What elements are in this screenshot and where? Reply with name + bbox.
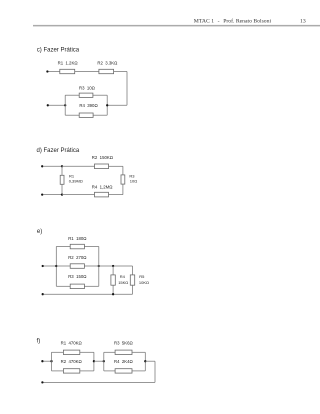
node A junction dot (section c) — [64, 104, 66, 106]
terminal node (section c, top input) — [46, 70, 48, 72]
node junction dot (section d, top of R1) — [61, 165, 63, 167]
svg-text:R2 470KΩ: R2 470KΩ — [61, 359, 83, 364]
resistor R2 (section e) — [70, 264, 84, 269]
wire (section e, R4 upper lead) — [112, 266, 114, 275]
resistor R4 (section c) — [79, 113, 93, 117]
wire (section f, R2 branch left) — [52, 370, 64, 372]
resistor R5 vertical (section e) — [130, 275, 134, 285]
resistor R1 vertical (section d) — [60, 175, 64, 184]
node junction dot (section f, pair2 left) — [103, 360, 105, 362]
svg-text:R4 2K4Ω: R4 2K4Ω — [114, 359, 134, 364]
svg-text:R1 180Ω: R1 180Ω — [68, 236, 87, 241]
svg-text:R2 3.3KΩ: R2 3.3KΩ — [97, 61, 118, 66]
wire (section f, bottom return) — [44, 381, 156, 383]
svg-text:e): e) — [37, 229, 42, 235]
resistor R3 (section c) — [79, 93, 93, 97]
wire (section e, R5 lower lead) — [132, 285, 134, 294]
wire (section d, R2 to top-right corner) — [109, 165, 123, 167]
wire (section e, R1 branch right) — [84, 246, 98, 248]
wire (section f, R4 branch left) — [104, 370, 115, 372]
svg-text:d) Fazer Prática: d) Fazer Prática — [37, 148, 80, 154]
wire (section e, R1 branch left) — [56, 246, 70, 248]
resistor R4 vertical (section e) — [111, 275, 115, 285]
wire (section e, R4 lower lead) — [112, 285, 114, 294]
wire (section d, R1 lower lead) — [61, 184, 63, 194]
node junction dot (section f, pair1 right) — [93, 360, 95, 362]
wire (section c, R2 to top-right corner) — [114, 71, 127, 73]
wire (section e, R3 branch left) — [56, 285, 70, 287]
wire (section f, R3 branch right) — [132, 351, 145, 353]
svg-text:R2 150KΩ: R2 150KΩ — [92, 155, 114, 160]
node B junction dot (section c) — [106, 104, 108, 106]
resistor R2 (section d) — [95, 164, 109, 169]
wire (section e, R5 upper lead) — [132, 266, 134, 275]
node junction dot (section e, top of R4) — [112, 265, 114, 267]
resistor R1 (section f) — [63, 350, 79, 354]
node junction dot (section e, bottom of R4) — [112, 293, 114, 295]
wire (section d, right rail upper) — [122, 166, 124, 175]
svg-text:R1 470KΩ: R1 470KΩ — [61, 341, 83, 346]
wire (section f, input to pair1 left rail) — [44, 360, 52, 362]
svg-text:R3 5K6Ω: R3 5K6Ω — [114, 341, 134, 346]
header rule — [33, 25, 320, 27]
wire (section f, pair1 left rail) — [51, 352, 53, 371]
svg-text:c) Fazer Prática: c) Fazer Prática — [37, 48, 80, 54]
wire (section c, R3 to right rail) — [93, 94, 107, 96]
node junction dot (section f, pair2 right) — [144, 360, 146, 362]
svg-text:R4: R4 — [120, 274, 126, 279]
terminal node (section e, left input) — [42, 265, 44, 267]
wire (section f, pair2 left rail) — [103, 352, 105, 371]
svg-text:R3 10Ω: R3 10Ω — [79, 85, 96, 90]
wire (section f, R1 branch left) — [52, 351, 64, 353]
terminal node (section d, bottom input) — [41, 193, 43, 195]
terminal node (section d, top input) — [41, 165, 43, 167]
wire (section c, bottom input to node A) — [49, 104, 65, 106]
wire (section f, R2 branch right) — [80, 370, 94, 372]
wire (section d, bottom input to node) — [43, 194, 62, 196]
svg-text:13: 13 — [300, 19, 306, 25]
resistor R4 (section d) — [95, 192, 109, 197]
resistor R2 (section c) — [99, 69, 114, 73]
resistor R1 (section e) — [70, 244, 84, 249]
wire (section e, bottom rail) — [44, 293, 133, 295]
wire (section d, R4 to bottom-right corner) — [109, 194, 123, 196]
wire (section c, bottom-right corner to node B) — [107, 104, 127, 106]
wire (section e, right rail) — [98, 247, 100, 287]
resistor R3 (section e) — [70, 284, 84, 289]
wire (section d, bottom rail to R4) — [62, 194, 95, 196]
wire (section c, R4 to right rail) — [93, 114, 107, 116]
wire (section f, R1 branch right) — [80, 351, 94, 353]
wire (section e, R2 branch left) — [56, 265, 70, 267]
terminal node (section e, bottom input) — [42, 293, 44, 295]
node junction dot (section d, bottom of R1) — [61, 193, 63, 195]
terminal node (section c, bottom input) — [47, 104, 49, 106]
wire (section d, top rail to R2) — [62, 165, 95, 167]
resistor R4 (section f) — [115, 369, 132, 373]
svg-text:R2 270Ω: R2 270Ω — [68, 255, 87, 260]
svg-text:10Ω: 10Ω — [130, 179, 137, 184]
wire (section d, top input to node) — [43, 165, 62, 167]
wire (section d, right rail lower) — [122, 184, 124, 195]
wire (section c, right rail of R3/R4 pair) — [106, 95, 108, 115]
wire (section f, link between pairs) — [94, 360, 104, 362]
wire (section f, output stub) — [145, 360, 155, 362]
wire (section f, right vertical return) — [154, 361, 156, 382]
wire (section c, input to R1) — [49, 71, 60, 73]
wire (section c, left rail of R3/R4 pair) — [64, 95, 66, 115]
wire (section f, R3 branch left) — [104, 351, 115, 353]
resistor R1 (section c) — [60, 69, 75, 73]
svg-text:R4 390Ω: R4 390Ω — [79, 103, 98, 108]
resistor R3 vertical (section d) — [121, 175, 125, 184]
wire (section e, left rail) — [55, 247, 57, 287]
wire (section f, pair1 right rail) — [93, 352, 95, 371]
terminal node (section f, bottom input) — [41, 381, 43, 383]
node junction dot (section f, pair1 left) — [50, 360, 52, 362]
svg-text:R4 1,2MΩ: R4 1,2MΩ — [92, 185, 113, 190]
svg-text:R1 1.2KΩ: R1 1.2KΩ — [58, 61, 79, 66]
wire (section c, R1 to R2) — [75, 71, 99, 73]
wire (section c, node A up to R3 branch) — [65, 94, 79, 96]
wire (section c, bottom branch left) — [65, 114, 79, 116]
svg-text:f): f) — [37, 338, 41, 344]
resistor R2 (section f) — [63, 369, 79, 373]
node junction dot (section e, right rail / R2 branch) — [98, 265, 100, 267]
wire (section e, right rail to R5 top corner) — [99, 265, 133, 267]
wire (section e, R3 branch right) — [84, 285, 98, 287]
terminal node (section f, left input) — [41, 360, 43, 362]
svg-text:0,39MΩ: 0,39MΩ — [69, 179, 83, 184]
wire (section e, input to left rail) — [44, 265, 57, 267]
svg-text:R5: R5 — [139, 274, 145, 279]
svg-text:10KΩ: 10KΩ — [139, 280, 149, 285]
svg-text:MTAC 1-Prof. Renato Bolsoni: MTAC 1-Prof. Renato Bolsoni — [194, 18, 272, 25]
wire (section d, R1 upper lead) — [61, 166, 63, 175]
wire (section c, right vertical drop) — [126, 72, 128, 106]
wire (section f, R4 branch right) — [132, 370, 145, 372]
resistor R3 (section f) — [115, 350, 132, 354]
wire (section f, pair2 right rail) — [144, 352, 146, 371]
node junction dot (section e, left rail / R2 branch) — [55, 265, 57, 267]
svg-text:R3 150Ω: R3 150Ω — [68, 274, 87, 279]
svg-text:15KΩ: 15KΩ — [118, 280, 128, 285]
wire (section e, R2 branch right) — [84, 265, 98, 267]
